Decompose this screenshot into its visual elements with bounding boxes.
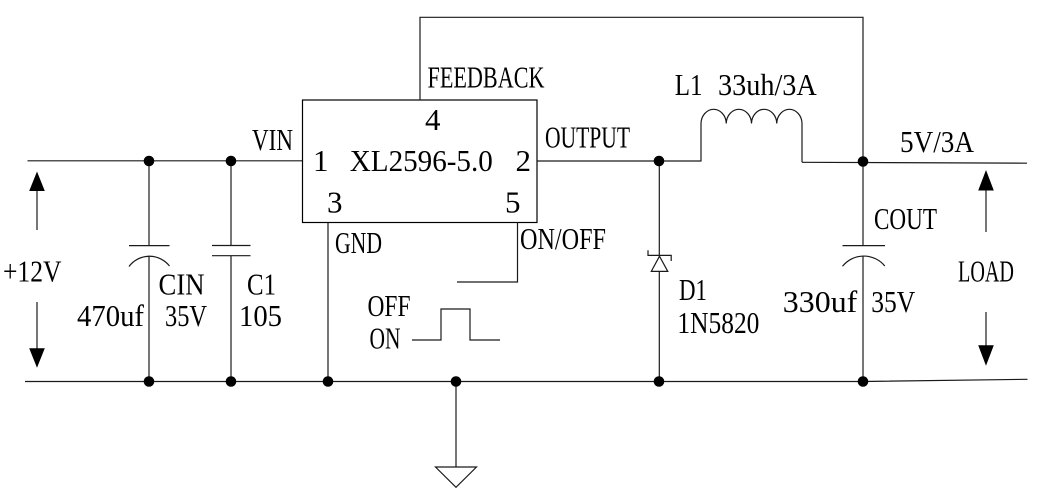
input up arrow (+12V) [29, 172, 45, 231]
svg-text:35V: 35V [871, 284, 916, 319]
svg-text:XL2596-5.0: XL2596-5.0 [350, 143, 493, 178]
svg-text:35V: 35V [165, 298, 207, 333]
node ground rail / CIN junction [144, 376, 155, 387]
load up arrow [978, 170, 994, 232]
svg-text:3: 3 [327, 185, 343, 220]
node ground rail / earth junction [451, 376, 462, 387]
svg-text:OUTPUT: OUTPUT [545, 120, 630, 155]
capacitor C1 [212, 161, 251, 382]
pulse waveform ON/OFF control [412, 309, 500, 340]
svg-text:5V/3A: 5V/3A [900, 124, 975, 159]
wire feedback (pin 4 to output node) [420, 17, 863, 161]
wire top input rail [28, 160, 303, 162]
wire pin 2 to OUTPUT node [537, 160, 701, 162]
svg-text:CIN: CIN [159, 267, 205, 302]
node VIN rail / C1 junction [226, 156, 237, 167]
node 5V rail / feedback / COUT junction [858, 156, 869, 167]
svg-text:LOAD: LOAD [958, 254, 1014, 289]
capacitor CIN (polarized) [129, 161, 170, 382]
diode D1 (schottky) [648, 161, 671, 382]
node ground rail / COUT junction [858, 376, 869, 387]
load down arrow [978, 312, 994, 366]
svg-text:470uf: 470uf [77, 298, 145, 333]
svg-text:ON: ON [370, 321, 401, 356]
svg-text:COUT: COUT [874, 201, 937, 236]
svg-text:+12V: +12V [3, 254, 62, 289]
ground (earth symbol) [436, 382, 477, 488]
wire pin 5 ON/OFF stub [457, 223, 518, 283]
svg-text:2: 2 [516, 143, 532, 178]
svg-text:5: 5 [505, 185, 521, 220]
IC U1 XL2596-5.0 box [303, 100, 538, 223]
svg-text:GND: GND [335, 225, 382, 260]
node OUTPUT / D1 junction [654, 156, 665, 167]
svg-text:C1: C1 [247, 267, 276, 302]
svg-text:ON/OFF: ON/OFF [520, 221, 606, 256]
svg-text:OFF: OFF [368, 288, 411, 323]
svg-text:4: 4 [425, 102, 441, 137]
node ground rail / D1 junction [654, 376, 665, 387]
svg-text:105: 105 [239, 298, 282, 333]
svg-text:1N5820: 1N5820 [677, 305, 759, 340]
wire bottom ground rail [25, 379, 1028, 381]
node ground rail / pin3 junction [323, 376, 334, 387]
svg-text:1: 1 [313, 143, 329, 178]
wire 5V output rail [802, 161, 1027, 164]
inductor L1 [701, 109, 802, 162]
node ground rail / C1 junction [226, 376, 237, 387]
node VIN rail / CIN junction [144, 156, 155, 167]
capacitor COUT (polarized) [843, 162, 886, 382]
wire pin 3 to ground rail [327, 223, 329, 382]
svg-text:33uh/3A: 33uh/3A [718, 67, 817, 102]
svg-text:FEEDBACK: FEEDBACK [428, 60, 545, 95]
svg-text:330uf: 330uf [783, 284, 858, 319]
input down arrow (+12V) [29, 302, 45, 368]
svg-text:D1: D1 [679, 272, 707, 307]
svg-text:VIN: VIN [252, 122, 293, 157]
svg-text:L1: L1 [675, 67, 703, 102]
